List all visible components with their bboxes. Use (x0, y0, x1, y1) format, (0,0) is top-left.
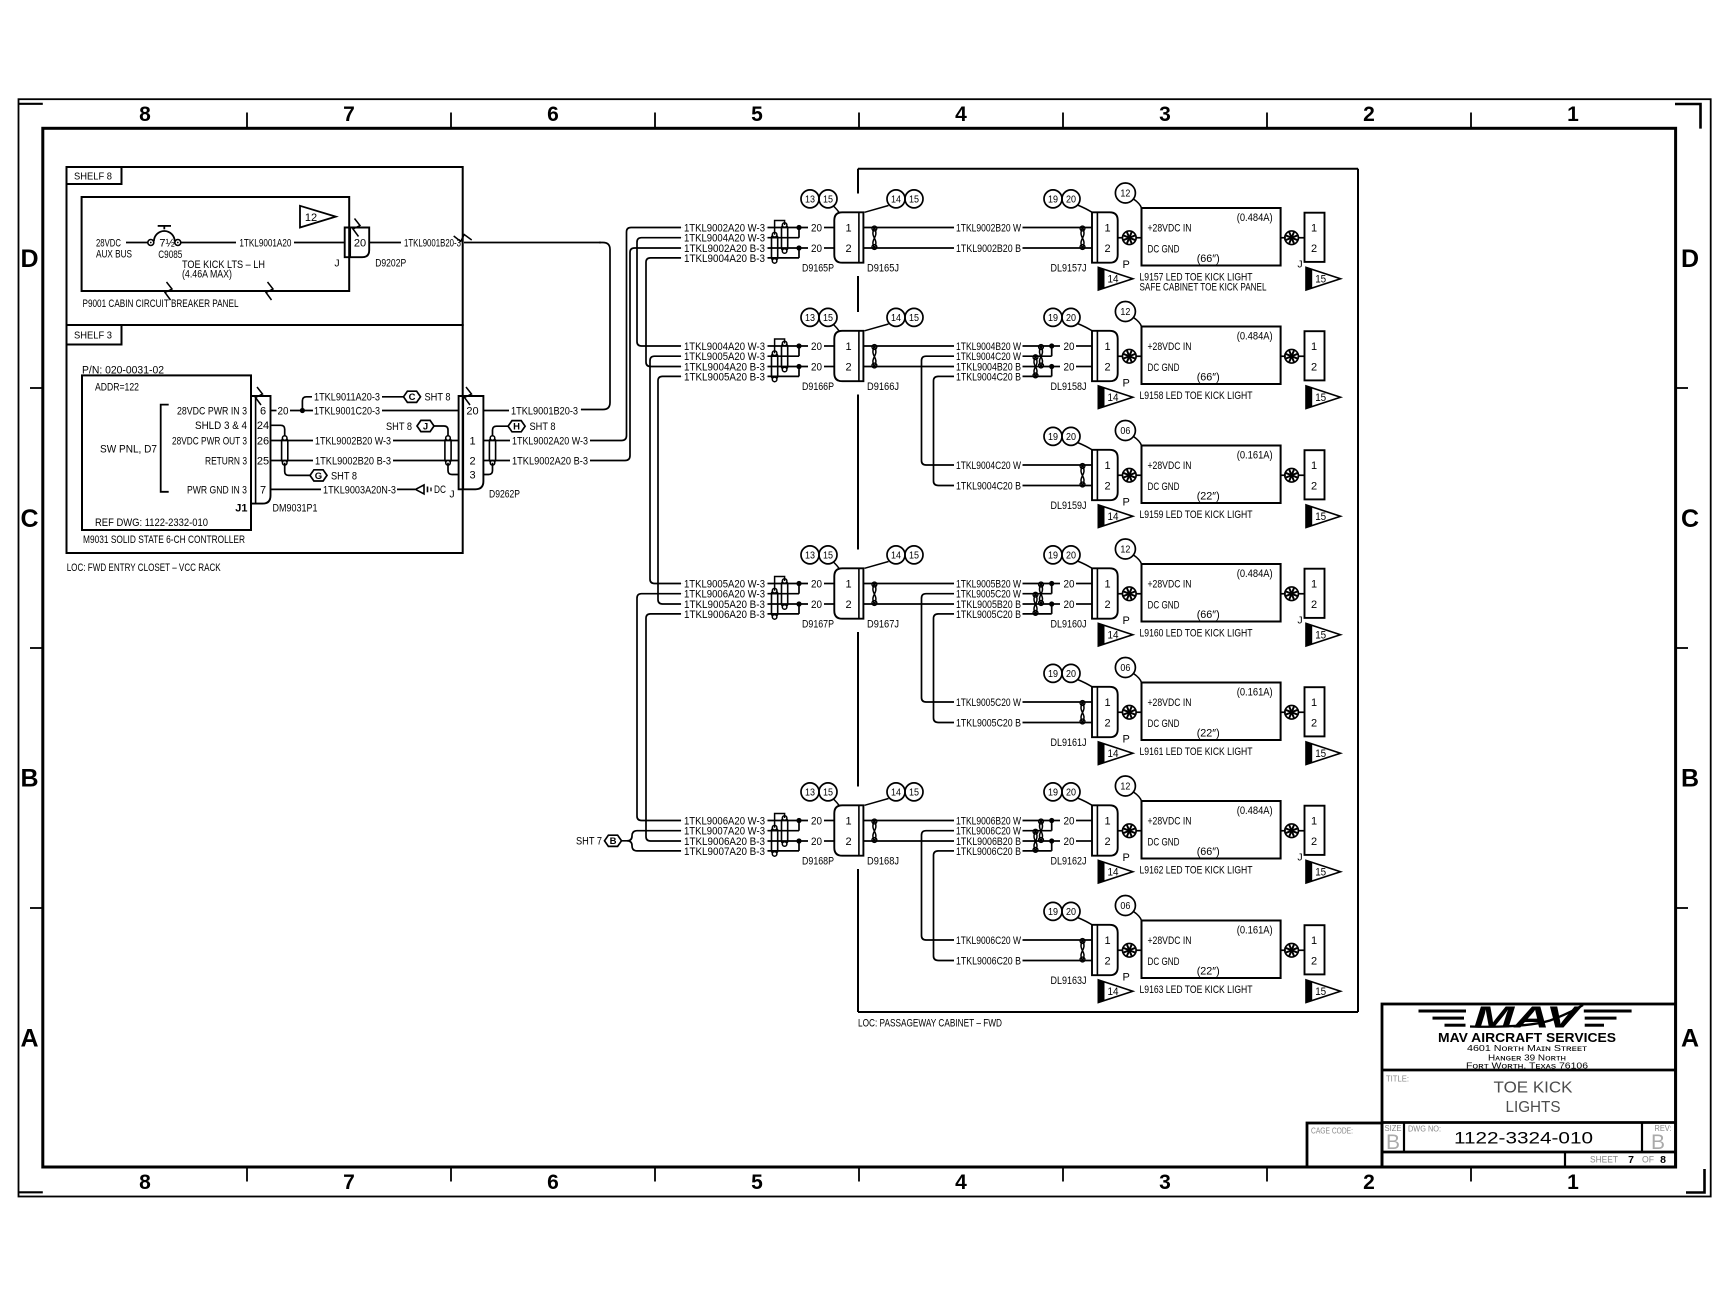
svg-text:2: 2 (1311, 599, 1317, 611)
svg-text:15: 15 (1315, 511, 1326, 523)
svg-text:DL9163J: DL9163J (1051, 975, 1087, 987)
svg-text:DC GND: DC GND (1148, 244, 1180, 256)
svg-text:(66″): (66″) (1197, 253, 1220, 265)
wire 1TKL9002B20 W-3 (271, 440, 314, 442)
svg-text:1: 1 (1104, 460, 1110, 472)
vertical run C20 W to next light (922, 594, 955, 702)
svg-text:1: 1 (845, 578, 851, 590)
svg-text:SHELF 3: SHELF 3 (74, 330, 112, 342)
wire pin6 gauge 20 (271, 410, 277, 412)
svg-text:SHEET: SHEET (1590, 1155, 1618, 1165)
svg-text:1TKL9004C20 W: 1TKL9004C20 W (956, 460, 1021, 472)
circles 14 15 for D9166J (887, 308, 905, 326)
svg-text:(0.484A): (0.484A) (1237, 568, 1273, 580)
passageway cabinet enclosure box right (1357, 169, 1359, 1012)
svg-text:2: 2 (1311, 361, 1317, 373)
svg-text:14: 14 (1108, 748, 1119, 760)
svg-text:H: H (513, 422, 520, 433)
sheet row (1564, 1152, 1566, 1167)
svg-text:2: 2 (1311, 243, 1317, 255)
svg-text:1: 1 (469, 435, 475, 447)
svg-text:20: 20 (1066, 194, 1076, 206)
svg-text:2: 2 (1104, 717, 1110, 729)
shield to pin 3 left (448, 463, 459, 475)
connector DM9031P1 J1 (251, 396, 271, 504)
svg-text:2: 2 (1104, 480, 1110, 492)
svg-text:2: 2 (845, 599, 851, 611)
svg-text:(66″): (66″) (1197, 609, 1220, 621)
svg-text:6: 6 (260, 405, 266, 417)
svg-text:SHELF 8: SHELF 8 (74, 171, 112, 183)
svg-text:D9202P: D9202P (375, 257, 406, 269)
svg-text:D9168J: D9168J (867, 856, 899, 868)
svg-text:15: 15 (823, 787, 833, 799)
svg-text:1: 1 (1104, 578, 1110, 590)
svg-text:12: 12 (305, 212, 317, 224)
svg-text:12: 12 (1120, 188, 1130, 200)
svg-text:+28VDC IN: +28VDC IN (1148, 815, 1192, 827)
connector D9202P pin 20 (345, 228, 370, 258)
shield symbol at D9262P input (445, 438, 451, 463)
svg-text:1: 1 (1104, 341, 1110, 353)
svg-text:20: 20 (1064, 578, 1075, 590)
wire 1TKL9002B20 W (863, 227, 954, 229)
vertical run 1TKL9006A20 B-3 (646, 614, 681, 841)
shield symbol at D9262P output (489, 438, 495, 463)
wire 1TKL9007A20 W-3 from SHT 7 (622, 831, 682, 841)
flag 15 (1306, 860, 1341, 883)
svg-text:1: 1 (1567, 103, 1579, 126)
svg-text:1: 1 (1311, 460, 1317, 472)
twisted pair at D9166J (873, 346, 876, 367)
vertical run 1TKL9005A20 W-3 (650, 356, 681, 583)
circles 19 20 for DL9161J (1044, 664, 1062, 682)
wire 1TKL9001A20 (181, 242, 236, 244)
svg-text:DL9158J: DL9158J (1051, 381, 1087, 393)
svg-text:14: 14 (1108, 274, 1119, 286)
svg-text:1TKL9005C20 W: 1TKL9005C20 W (956, 697, 1021, 709)
size / dwg no / rev row (1382, 1121, 1676, 1124)
svg-text:L9162 LED TOE KICK LIGHT: L9162 LED TOE KICK LIGHT (1140, 865, 1253, 877)
svg-text:D: D (20, 245, 38, 273)
corner trim mark bottom-left (19, 1191, 43, 1193)
svg-text:(0.484A): (0.484A) (1237, 212, 1273, 224)
svg-text:7: 7 (343, 1171, 355, 1194)
merge verticals (1051, 346, 1053, 356)
svg-text:1: 1 (1104, 815, 1110, 827)
flag 14 (1098, 267, 1133, 290)
twisted pair at light connector (1081, 702, 1084, 723)
svg-text:28VDC PWR OUT 3: 28VDC PWR OUT 3 (172, 435, 247, 447)
shield symbols D9168P (782, 818, 788, 844)
svg-text:LOC: PASSAGEWAY CABINET – FWD: LOC: PASSAGEWAY CABINET – FWD (858, 1017, 1002, 1029)
title block logo section divider (1382, 1069, 1676, 1072)
break mark on D9262P (465, 387, 472, 405)
svg-text:(0.161A): (0.161A) (1237, 450, 1273, 462)
svg-text:1TKL9005A20 B-3: 1TKL9005A20 B-3 (684, 371, 765, 383)
vertical run 1TKL9005A20 B-3 (658, 376, 681, 604)
flag 15 (1306, 980, 1341, 1003)
circles 14 15 for D9168J (887, 783, 905, 801)
svg-text:DM9031P1: DM9031P1 (273, 503, 318, 515)
SHELF 3 tab (67, 325, 122, 345)
svg-text:3: 3 (1159, 103, 1171, 126)
wire 1TKL9002B20 B-3 (271, 460, 314, 462)
svg-text:14: 14 (1108, 511, 1119, 523)
twisted pair at light connector (1081, 940, 1084, 961)
svg-text:1: 1 (1104, 935, 1110, 947)
connector DL9157J (1092, 212, 1118, 262)
svg-text:19: 19 (1048, 787, 1058, 799)
svg-text:(22″): (22″) (1197, 966, 1220, 978)
svg-text:(22″): (22″) (1197, 728, 1220, 740)
svg-text:15: 15 (1315, 986, 1326, 998)
svg-text:P: P (1123, 497, 1130, 509)
svg-text:(66″): (66″) (1197, 372, 1220, 384)
splice left of L9161 (1118, 711, 1123, 713)
wire 1TKL9007A20 B-3 from SHT 7 (627, 841, 681, 851)
wire 1TKL9001B20-3 vertical run (581, 243, 610, 410)
svg-text:1: 1 (1311, 815, 1317, 827)
vertical run C20 W to next light (922, 831, 955, 940)
splice left of L9158 (1118, 355, 1123, 357)
P9001 cabin circuit breaker panel box (82, 197, 350, 291)
svg-text:(66″): (66″) (1197, 846, 1220, 858)
DC ground stud symbol (416, 485, 425, 494)
circles 14 15 for D9165J (887, 190, 905, 208)
svg-text:1TKL9006C20 W: 1TKL9006C20 W (956, 935, 1021, 947)
svg-text:1TKL9002A20 W-3: 1TKL9002A20 W-3 (512, 435, 588, 447)
splice right of L9160 (1281, 593, 1286, 595)
svg-text:8: 8 (139, 1171, 151, 1194)
light tail connector (1305, 925, 1325, 974)
svg-text:C: C (1681, 505, 1699, 533)
junction dots D9166P (796, 343, 801, 348)
svg-text:20: 20 (1064, 361, 1075, 373)
svg-text:06: 06 (1120, 662, 1130, 674)
svg-text:P9001 CABIN CIRCUIT BREAKER PA: P9001 CABIN CIRCUIT BREAKER PANEL (83, 298, 239, 310)
svg-text:SHT 8: SHT 8 (425, 392, 451, 404)
svg-text:20: 20 (278, 405, 289, 417)
svg-text:M9031 SOLID STATE 6-CH CONTROL: M9031 SOLID STATE 6-CH CONTROLLER (83, 534, 245, 546)
LED light unit L9162 box (1142, 801, 1281, 859)
svg-text:20: 20 (466, 405, 478, 417)
connector DL9162J (1092, 805, 1118, 855)
flag 14 (1098, 386, 1133, 409)
flag 15 (1306, 623, 1341, 646)
MAV logo (1419, 1000, 1632, 1035)
svg-text:C9085: C9085 (158, 249, 182, 261)
svg-text:D9167P: D9167P (802, 619, 834, 631)
svg-text:SHT 7: SHT 7 (576, 836, 602, 848)
svg-text:DC GND: DC GND (1148, 837, 1180, 849)
splice right of L9163 (1281, 949, 1286, 951)
svg-text:2: 2 (1104, 836, 1110, 848)
LED light unit L9160 box (1142, 564, 1281, 622)
svg-text:J: J (1297, 615, 1302, 627)
svg-text:DC GND: DC GND (1148, 956, 1180, 968)
svg-text:20: 20 (1064, 599, 1075, 611)
svg-text:(0.484A): (0.484A) (1237, 331, 1273, 343)
svg-text:20: 20 (811, 836, 822, 848)
LED light unit L9158 box (1142, 327, 1281, 385)
svg-text:1: 1 (1311, 222, 1317, 234)
junction dots D9168P (796, 818, 801, 823)
break mark on DM9031P1 (256, 387, 263, 405)
svg-text:C: C (409, 392, 416, 403)
shield drain to G (285, 463, 310, 476)
wire 1TKL9003A20N-3 ground (271, 488, 322, 490)
svg-text:(0.161A): (0.161A) (1237, 925, 1273, 937)
wire 1TKL9004B20 B (863, 366, 954, 368)
passageway cabinet enclosure box top (858, 168, 1358, 170)
break mark on P9001 box bottom right (266, 282, 273, 300)
svg-text:1TKL9002A20 B-3: 1TKL9002A20 B-3 (512, 455, 588, 467)
svg-text:20: 20 (1066, 550, 1076, 562)
svg-text:15: 15 (909, 194, 919, 206)
svg-text:12: 12 (1120, 544, 1130, 556)
svg-text:3: 3 (1159, 1171, 1171, 1194)
flag 12 wire bundle (300, 206, 336, 228)
svg-text:26: 26 (257, 435, 269, 447)
splice left of L9159 (1118, 474, 1123, 476)
svg-text:15: 15 (909, 312, 919, 324)
connector DL9161J (1092, 687, 1118, 737)
svg-text:1TKL9011A20-3: 1TKL9011A20-3 (314, 392, 380, 404)
svg-text:4: 4 (955, 1171, 967, 1194)
svg-text:1: 1 (845, 815, 851, 827)
svg-text:D9166J: D9166J (867, 381, 899, 393)
svg-text:1TKL9006C20 B: 1TKL9006C20 B (956, 846, 1021, 858)
wire 1TKL9005C20 W branch (926, 593, 954, 595)
svg-text:1TKL9003A20N-3: 1TKL9003A20N-3 (323, 484, 396, 496)
svg-text:C: C (20, 505, 38, 533)
svg-text:P: P (1123, 852, 1130, 864)
svg-text:2: 2 (1363, 1171, 1375, 1194)
splice left of L9160 (1118, 593, 1123, 595)
vertical run 1TKL9004A20 W-3 (637, 238, 681, 346)
svg-text:20: 20 (811, 578, 822, 590)
break mark on P9001 box bottom (165, 282, 172, 300)
svg-text:AUX BUS: AUX BUS (96, 249, 132, 261)
svg-text:14: 14 (891, 312, 901, 324)
zone ticks bottom (246, 1167, 248, 1182)
svg-text:1TKL9006C20 B: 1TKL9006C20 B (956, 955, 1021, 967)
svg-text:20: 20 (1066, 787, 1076, 799)
svg-text:SW PNL, D7: SW PNL, D7 (100, 444, 157, 456)
LED light unit L9159 box (1142, 446, 1281, 504)
light tail connector (1305, 687, 1325, 736)
svg-text:DL9160J: DL9160J (1051, 619, 1087, 631)
circle 12 harness (1115, 539, 1135, 559)
connector DL9158J (1092, 331, 1118, 381)
svg-text:1TKL9005C20 B: 1TKL9005C20 B (956, 717, 1021, 729)
connector DL9160J (1092, 568, 1118, 618)
sheet reference G SHT 8 (310, 470, 327, 481)
svg-text:D: D (1681, 245, 1699, 273)
flag 14 (1098, 860, 1133, 883)
svg-text:20: 20 (1066, 906, 1076, 918)
svg-text:SHLD 3 & 4: SHLD 3 & 4 (195, 420, 247, 432)
wire 1TKL9005B20 W (863, 583, 954, 585)
circles 19 20 for DL9163J (1044, 902, 1062, 920)
svg-text:14: 14 (1108, 630, 1119, 642)
circles 19 20 for DL9160J (1044, 546, 1062, 564)
svg-text:(0.161A): (0.161A) (1237, 687, 1273, 699)
circle 12 harness (1115, 183, 1135, 203)
svg-text:2: 2 (845, 243, 851, 255)
svg-text:7: 7 (260, 484, 266, 496)
svg-text:G: G (315, 471, 322, 482)
svg-text:3: 3 (469, 469, 475, 481)
wire 1TKL9002A20 W-3 output (483, 440, 510, 442)
svg-text:L9163 LED TOE KICK LIGHT: L9163 LED TOE KICK LIGHT (1140, 984, 1253, 996)
svg-text:13: 13 (805, 312, 815, 324)
svg-text:13: 13 (805, 550, 815, 562)
twisted pairs mid (1039, 346, 1042, 367)
flag 15 (1306, 267, 1341, 290)
wire 1TKL9004C20 B branch (939, 375, 955, 377)
svg-text:SHT 8: SHT 8 (331, 470, 357, 482)
svg-text:B: B (1386, 1131, 1400, 1154)
vertical run 1TKL9002A20 W-3 (622, 228, 682, 441)
title block cage code cell (1307, 1123, 1382, 1167)
svg-text:B: B (610, 836, 617, 847)
vertical run C20 W to next light (922, 356, 955, 465)
circle 12 harness (1115, 776, 1135, 796)
wire pair merge for D9166P (768, 345, 809, 347)
splice left of L9163 (1118, 949, 1123, 951)
svg-text:1TKL9005C20 B: 1TKL9005C20 B (956, 609, 1021, 621)
svg-text:+28VDC IN: +28VDC IN (1148, 935, 1192, 947)
vertical run 1TKL9004A20 B-3 (646, 258, 681, 367)
svg-text:2: 2 (1104, 243, 1110, 255)
svg-text:1TKL9005C20 W: 1TKL9005C20 W (956, 589, 1021, 601)
svg-text:A: A (20, 1024, 38, 1052)
svg-text:1TKL9004C20 B: 1TKL9004C20 B (956, 371, 1021, 383)
circle 06 harness (1115, 421, 1135, 441)
wire 1TKL9006B20 B (863, 840, 954, 842)
svg-text:ADDR=122: ADDR=122 (95, 381, 139, 393)
shield symbols D9167P (782, 581, 788, 607)
svg-text:15: 15 (1315, 630, 1326, 642)
svg-text:+28VDC IN: +28VDC IN (1148, 578, 1192, 590)
LED light unit L9163 box (1142, 921, 1281, 979)
svg-text:20: 20 (811, 222, 822, 234)
svg-text:1TKL9002B20 W-3: 1TKL9002B20 W-3 (315, 435, 391, 447)
flag 14 (1098, 623, 1133, 646)
connector D9168P (834, 805, 863, 855)
LED light unit L9157 box (1142, 208, 1281, 266)
svg-text:2: 2 (845, 836, 851, 848)
junction on pin 6 wire (300, 408, 305, 413)
break mark on D9202P (353, 219, 360, 237)
shield symbols D9166P (782, 344, 788, 370)
svg-text:1: 1 (845, 341, 851, 353)
svg-text:06: 06 (1120, 900, 1130, 912)
svg-text:20: 20 (1066, 431, 1076, 443)
svg-text:PWR GND IN 3: PWR GND IN 3 (187, 484, 247, 496)
svg-text:2: 2 (1104, 361, 1110, 373)
splice left of L9157 (1118, 237, 1123, 239)
passageway cabinet enclosure box bottom (858, 1011, 1358, 1013)
svg-text:D9166P: D9166P (802, 381, 834, 393)
merge verticals (1051, 584, 1053, 594)
svg-text:DL9161J: DL9161J (1051, 737, 1087, 749)
connector DL9159J (1092, 450, 1118, 500)
svg-text:+28VDC IN: +28VDC IN (1148, 222, 1192, 234)
svg-text:25: 25 (257, 455, 269, 467)
svg-text:1: 1 (1311, 341, 1317, 353)
corner trim mark top-right (1675, 104, 1701, 129)
passageway cabinet enclosure box left segments (857, 169, 859, 194)
svg-text:+28VDC IN: +28VDC IN (1148, 460, 1192, 472)
svg-text:D9165J: D9165J (867, 263, 899, 275)
svg-text:DC GND: DC GND (1148, 362, 1180, 374)
wire 1TKL9002B20 B (863, 247, 954, 249)
connector D9262P (459, 396, 484, 489)
svg-text:1: 1 (1104, 697, 1110, 709)
zone ticks top (246, 113, 248, 129)
svg-text:15: 15 (823, 550, 833, 562)
svg-text:J: J (1297, 852, 1302, 864)
twisted pairs mid (1039, 584, 1042, 605)
svg-text:RETURN 3: RETURN 3 (205, 455, 247, 467)
twisted pair at D9167J (873, 584, 876, 605)
vertical run C20 B to next light (934, 376, 955, 485)
svg-text:7: 7 (343, 103, 355, 126)
svg-text:DWG NO:: DWG NO: (1408, 1124, 1441, 1133)
svg-text:5: 5 (751, 103, 763, 126)
svg-text:8: 8 (139, 103, 151, 126)
svg-text:1: 1 (1311, 935, 1317, 947)
svg-text:D9167J: D9167J (867, 619, 899, 631)
svg-text:28VDC: 28VDC (96, 238, 121, 250)
svg-text:2: 2 (1104, 955, 1110, 967)
twisted pairs mid (1039, 821, 1042, 842)
svg-text:D9262P: D9262P (489, 489, 520, 501)
svg-text:14: 14 (891, 194, 901, 206)
svg-text:4: 4 (955, 103, 967, 126)
flag 14 (1098, 980, 1133, 1003)
twisted pair at D9168J (873, 821, 876, 842)
svg-text:(0.484A): (0.484A) (1237, 805, 1273, 817)
circle 12 harness (1115, 302, 1135, 322)
wire 1TKL9006C20 W branch (926, 830, 954, 832)
svg-text:19: 19 (1048, 906, 1058, 918)
splice right of L9162 (1281, 830, 1286, 832)
wire 28VDC bus to breaker (126, 242, 148, 244)
svg-text:A: A (1681, 1024, 1699, 1052)
svg-text:1: 1 (1311, 578, 1317, 590)
svg-text:19: 19 (1048, 668, 1058, 680)
bracket SW PNL D7 (161, 405, 169, 492)
svg-text:14: 14 (891, 550, 901, 562)
flag 15 (1306, 742, 1341, 765)
svg-text:1TKL9001B20-3: 1TKL9001B20-3 (404, 238, 461, 250)
svg-text:DL9159J: DL9159J (1051, 500, 1087, 512)
svg-text:20: 20 (1064, 815, 1075, 827)
svg-text:15: 15 (909, 550, 919, 562)
svg-text:L9161 LED TOE KICK LIGHT: L9161 LED TOE KICK LIGHT (1140, 746, 1253, 758)
svg-text:1TKL9006C20 W: 1TKL9006C20 W (956, 826, 1021, 838)
svg-text:19: 19 (1048, 312, 1058, 324)
svg-text:(22″): (22″) (1197, 491, 1220, 503)
svg-text:+28VDC IN: +28VDC IN (1148, 341, 1192, 353)
junction dots (1049, 581, 1054, 586)
svg-text:19: 19 (1048, 550, 1058, 562)
circles 13 15 for D9165P (801, 190, 819, 208)
